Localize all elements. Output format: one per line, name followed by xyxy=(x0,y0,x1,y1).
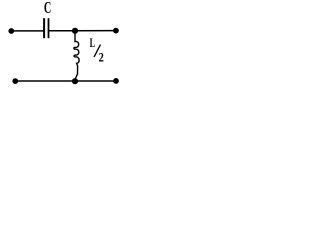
svg-text:C: C xyxy=(44,0,51,17)
inductor L/2 (shunt coil) xyxy=(74,34,79,80)
wire: top junction to output terminal xyxy=(75,30,116,32)
wire: bottom rail xyxy=(15,80,116,82)
node: top junction dot xyxy=(72,28,78,34)
node: input terminal (top-left dot) xyxy=(8,28,14,34)
wire: top-left segment (input terminal to capacitor) xyxy=(11,30,44,32)
node: bottom-left terminal dot xyxy=(12,78,18,84)
value label L/2 xyxy=(90,36,104,65)
svg-text:L: L xyxy=(90,36,95,50)
wire: capacitor to top junction xyxy=(49,30,75,32)
node: bottom junction dot xyxy=(72,78,78,84)
node: output terminal (top-right dot) xyxy=(113,28,119,34)
capacitor C (two plates) xyxy=(44,18,48,38)
svg-text:2: 2 xyxy=(99,51,104,65)
node: bottom-right terminal dot xyxy=(113,78,119,84)
